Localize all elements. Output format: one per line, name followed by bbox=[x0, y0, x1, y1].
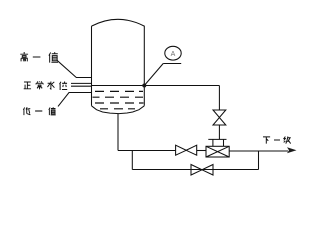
wire: main line left segment bbox=[118, 150, 176, 152]
tank vessel shell bbox=[92, 19, 145, 113]
water dashed row 1 bbox=[95, 90, 143, 92]
wire: tap line down to valve bbox=[218, 86, 220, 111]
wire: valve stem bbox=[218, 125, 220, 139]
label 高一值 (high level) bbox=[20, 52, 58, 63]
label 低一值 leader bbox=[58, 93, 92, 107]
arrowhead to next stage bbox=[287, 147, 297, 153]
高 bbox=[20, 52, 28, 61]
正 bbox=[24, 82, 31, 89]
water surface line / instrument tap line bbox=[92, 85, 220, 87]
water dashed row 2 bbox=[93, 96, 144, 98]
wire: bypass branch down bbox=[131, 151, 133, 170]
actuator yoke of control valve bbox=[208, 139, 226, 146]
下 bbox=[263, 137, 270, 144]
control valve body (box with X) bbox=[206, 146, 229, 157]
级 bbox=[284, 137, 291, 144]
常 bbox=[36, 81, 43, 89]
位 bbox=[59, 81, 67, 89]
label 正常水位 leader (double line) bbox=[71, 83, 92, 86]
label 低一值 (low level) bbox=[23, 107, 55, 115]
water dashed row 3 bbox=[95, 102, 144, 104]
一 bbox=[274, 139, 280, 141]
instrument bubble A bbox=[144, 46, 181, 85]
label 下一级 (to next stage) bbox=[263, 137, 291, 144]
wire: bypass return up bbox=[258, 151, 260, 170]
wire: tank drain pipe down bbox=[117, 114, 119, 151]
低 bbox=[23, 107, 30, 115]
一 bbox=[33, 56, 41, 58]
值 bbox=[49, 107, 56, 115]
valve V2 (bowtie, main line) bbox=[176, 145, 197, 155]
wire: main line right segment to arrow bbox=[229, 150, 288, 152]
一 bbox=[35, 110, 42, 112]
valve V3 (bowtie, bypass) bbox=[191, 165, 213, 176]
wire: valve V2 to control valve bbox=[197, 150, 206, 152]
值 bbox=[49, 52, 58, 62]
wire: bypass bottom line bbox=[132, 169, 258, 171]
label 高一值 leader bbox=[57, 60, 92, 77]
node junction dot bbox=[142, 84, 146, 88]
valve V1 (vertical hourglass) bbox=[213, 110, 226, 125]
water dashed row 4 bbox=[100, 108, 135, 110]
水 bbox=[47, 81, 54, 89]
label 正常水位 (normal water level) bbox=[24, 81, 68, 90]
svg-text:A: A bbox=[171, 51, 176, 58]
